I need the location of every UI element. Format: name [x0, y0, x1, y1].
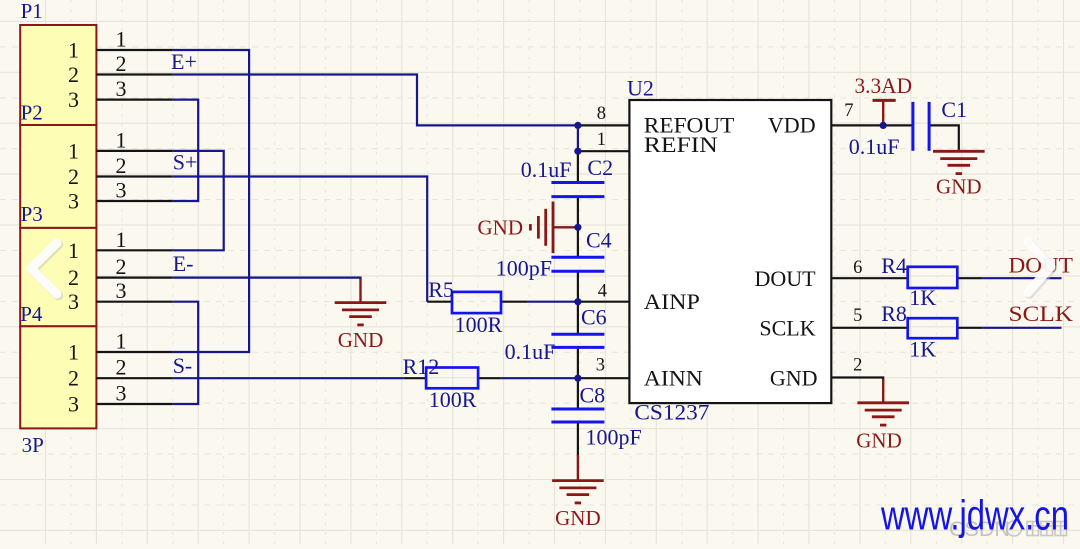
- svg-text:2: 2: [68, 164, 79, 189]
- ground GND (C8 net): [577, 455, 579, 481]
- svg-text:2: 2: [68, 265, 79, 290]
- svg-text:1: 1: [68, 238, 79, 263]
- svg-text:VDD: VDD: [768, 113, 816, 138]
- resistor R12: [426, 368, 478, 389]
- junction REFOUT node: [574, 122, 581, 129]
- svg-text:2: 2: [68, 62, 79, 87]
- wire R12 to AINN node: [501, 377, 578, 379]
- svg-text:GND: GND: [555, 506, 601, 530]
- svg-text:3: 3: [68, 392, 79, 417]
- svg-text:100R: 100R: [429, 387, 477, 412]
- pin 2 of P4: [96, 377, 172, 379]
- pin 3 of P3: [96, 301, 172, 303]
- wire P1 pin1 to P4 pin1: [173, 50, 249, 352]
- svg-text:3P: 3P: [22, 433, 44, 457]
- cap chain wire C2 pin: [577, 151, 579, 182]
- svg-text:3: 3: [68, 289, 79, 314]
- svg-text:C6: C6: [581, 304, 607, 329]
- svg-text:R12: R12: [403, 354, 440, 379]
- cap chain wire C4-C6: [577, 271, 579, 334]
- svg-text:0.1uF: 0.1uF: [849, 134, 900, 159]
- svg-text:7: 7: [844, 101, 853, 121]
- svg-text:U2: U2: [627, 75, 654, 100]
- pin 1 wire of U2: [578, 150, 630, 152]
- wire net S- : P4 pin2 to R12: [173, 377, 404, 379]
- svg-text:8: 8: [597, 104, 606, 124]
- capacitor C6: [551, 333, 604, 336]
- cap chain wire C2-C4: [577, 197, 579, 258]
- resistor R5: [452, 292, 501, 313]
- svg-text:GND: GND: [770, 366, 818, 391]
- wire net SCLK from R8: [982, 327, 1061, 329]
- svg-text:SCLK: SCLK: [1009, 301, 1074, 326]
- svg-text:AINP: AINP: [644, 289, 700, 314]
- lead R12 left: [404, 377, 426, 379]
- junction GND tap node: [574, 224, 581, 231]
- wire R5 to AINP node: [527, 301, 578, 303]
- svg-text:S-: S-: [173, 353, 193, 378]
- capacitor C1: [911, 102, 914, 151]
- svg-text:GND: GND: [478, 215, 524, 239]
- lead R12 right: [478, 377, 501, 379]
- svg-text:1: 1: [116, 27, 127, 52]
- svg-text:1: 1: [116, 127, 127, 152]
- power port 3.3AD: [873, 99, 896, 102]
- wire net S+ : P2 pin2 to R5: [173, 177, 427, 302]
- wire REFOUT node to REFIN node: [577, 125, 579, 151]
- watermark @-author glyph blocks: [1007, 521, 1067, 536]
- pin 3 of P4: [96, 403, 172, 405]
- wire P1 pin3 to P2 pin3: [173, 100, 198, 201]
- pin 5 wire of U2 to R8: [831, 327, 907, 329]
- svg-text:S+: S+: [173, 149, 198, 174]
- svg-text:3: 3: [116, 178, 127, 203]
- svg-text:P1: P1: [21, 0, 43, 23]
- pin 1 of P2: [96, 150, 172, 152]
- svg-text:P3: P3: [21, 202, 43, 226]
- svg-text:2: 2: [116, 153, 127, 178]
- pin 8 wire of U2: [578, 124, 630, 126]
- svg-text:SCLK: SCLK: [759, 315, 815, 340]
- svg-text:C8: C8: [580, 383, 606, 408]
- svg-text:AINN: AINN: [644, 366, 703, 391]
- ground GND (U2 pin 2): [882, 379, 884, 403]
- pin 3 of P1: [96, 98, 172, 100]
- svg-text:0.1uF: 0.1uF: [521, 157, 572, 182]
- ground GND (REFIN filter, rotated): [553, 226, 578, 228]
- svg-text:R4: R4: [881, 253, 907, 278]
- pin 2 of P3: [96, 277, 172, 279]
- wire P3 pin3 to P4 pin3: [173, 302, 198, 404]
- ground GND (C1): [958, 149, 960, 151]
- svg-text:GND: GND: [338, 328, 384, 352]
- svg-text:6: 6: [853, 258, 862, 278]
- svg-text:C2: C2: [587, 155, 613, 180]
- wire net E+ : P1 pin2 to U2 REFOUT node: [173, 75, 578, 126]
- pin 3 wire of U2: [578, 377, 630, 379]
- ground GND (E- net): [359, 279, 361, 303]
- capacitor C8: [551, 408, 604, 411]
- carousel right arrow: [1030, 244, 1053, 295]
- pin 4 wire of U2: [578, 301, 630, 303]
- svg-text:1: 1: [597, 130, 606, 150]
- connector P4 body: [20, 326, 96, 428]
- lead R8 right: [957, 327, 982, 329]
- svg-text:5: 5: [853, 306, 862, 326]
- connector P1 body: [20, 25, 96, 125]
- svg-text:3: 3: [68, 87, 79, 112]
- svg-text:3: 3: [68, 189, 79, 214]
- svg-text:2: 2: [853, 355, 862, 375]
- svg-text:3: 3: [116, 76, 127, 101]
- resistor R4: [908, 267, 958, 288]
- wire net DOUT from R4: [982, 277, 1061, 279]
- svg-text:C4: C4: [586, 228, 612, 253]
- lead R5 right: [501, 301, 527, 303]
- pin 1 of P4: [96, 351, 172, 353]
- svg-text:2: 2: [116, 51, 127, 76]
- carousel left arrow: [33, 245, 59, 296]
- svg-text:4: 4: [598, 282, 607, 302]
- svg-text:E+: E+: [171, 49, 197, 74]
- svg-text:1K: 1K: [909, 285, 936, 310]
- pin 6 wire of U2 to R4: [831, 277, 907, 279]
- svg-text:DOUT: DOUT: [754, 266, 816, 291]
- resistor R8: [908, 318, 958, 338]
- svg-text:E-: E-: [173, 251, 194, 276]
- pin 3 of P2: [96, 200, 172, 202]
- svg-text:CS1237: CS1237: [634, 400, 709, 425]
- svg-text:1K: 1K: [909, 336, 936, 361]
- pin 2 of P2: [96, 175, 172, 177]
- svg-text:1: 1: [68, 340, 79, 365]
- svg-text:3: 3: [116, 381, 127, 406]
- svg-text:100pF: 100pF: [496, 255, 552, 280]
- svg-text:100pF: 100pF: [586, 425, 642, 450]
- capacitor C2: [551, 181, 604, 184]
- svg-text:3: 3: [596, 355, 605, 375]
- svg-text:R8: R8: [881, 301, 907, 326]
- pin 1 of P1: [96, 49, 172, 51]
- svg-text:C1: C1: [941, 97, 967, 122]
- svg-text:R5: R5: [428, 277, 454, 302]
- pin 7 wire of U2 to C1: [831, 124, 913, 126]
- cap chain wire C6-C8: [577, 347, 579, 409]
- lead R4 right: [957, 277, 982, 279]
- svg-text:3.3AD: 3.3AD: [855, 73, 913, 98]
- connector P3 body: [20, 228, 96, 326]
- cap chain wire C8 to ground: [577, 422, 579, 456]
- svg-text:0.1uF: 0.1uF: [505, 339, 556, 364]
- svg-text:P4: P4: [20, 302, 43, 326]
- junction VDD node: [880, 122, 887, 129]
- svg-text:1: 1: [116, 329, 127, 354]
- junction AINP node: [574, 298, 581, 305]
- svg-text:100R: 100R: [455, 312, 503, 337]
- svg-text:P2: P2: [21, 101, 43, 125]
- svg-text:2: 2: [116, 355, 127, 380]
- svg-text:GND: GND: [936, 174, 982, 198]
- wire C1 to ground: [929, 125, 959, 150]
- pin 1 of P3: [96, 249, 172, 251]
- svg-text:GND: GND: [856, 428, 902, 452]
- pin 2 of P1: [96, 73, 172, 75]
- capacitor C4: [551, 256, 604, 259]
- op-amp U2 CS1237 body: [629, 100, 831, 403]
- svg-text:2: 2: [68, 366, 79, 391]
- svg-text:www.jdwx.cn: www.jdwx.cn: [880, 492, 1069, 539]
- svg-text:1: 1: [68, 138, 79, 163]
- connector P2 body: [20, 125, 96, 228]
- svg-text:REFIN: REFIN: [644, 132, 718, 157]
- wire net E- : P3 pin2 to ground: [173, 278, 361, 280]
- svg-text:1: 1: [68, 38, 79, 63]
- pin 2 wire of U2 to ground: [831, 378, 883, 381]
- junction REFIN node: [574, 148, 581, 155]
- svg-text:1: 1: [116, 227, 127, 252]
- lead R5 left: [427, 301, 452, 303]
- wire P2 pin1 to P3 pin1: [173, 151, 224, 250]
- svg-text:3: 3: [116, 278, 127, 303]
- svg-text:2: 2: [116, 254, 127, 279]
- junction AINN node: [574, 375, 581, 382]
